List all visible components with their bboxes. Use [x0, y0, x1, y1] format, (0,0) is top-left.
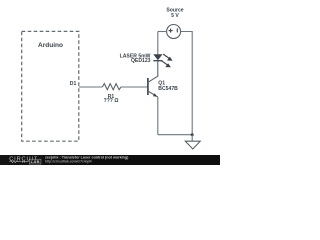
svg-text:5 V: 5 V [171, 13, 179, 19]
LED cathode bar [153, 60, 162, 62]
LED laser diode D? anode wire [157, 32, 159, 55]
wire resistor to transistor base [121, 86, 148, 88]
voltage source V1 circle [167, 25, 181, 39]
LED emission arrow 2 [162, 61, 168, 66]
svg-text:http://circuitlab.com/c/7c4qd4: http://circuitlab.com/c/7c4qd4 [45, 159, 92, 163]
emitter wire down [157, 97, 159, 135]
svg-text:QED123: QED123 [131, 58, 151, 64]
svg-text:D1: D1 [70, 81, 77, 87]
footer bar [0, 155, 220, 165]
ground symbol [185, 141, 200, 149]
resistor R1 [102, 84, 121, 90]
source minus bar [176, 28, 178, 32]
ground stub [191, 135, 193, 142]
junction node [191, 133, 194, 136]
svg-text:Arduino: Arduino [38, 42, 63, 49]
transistor Q1 base bar [147, 78, 149, 95]
svg-text:LAB: LAB [31, 159, 40, 164]
LED triangle [153, 54, 162, 60]
svg-text:BC547B: BC547B [158, 86, 178, 92]
transistor Q1 emitter lead [148, 91, 158, 97]
transistor Q1 collector lead [148, 61, 158, 82]
bottom wire [158, 134, 192, 136]
source plus sign [169, 30, 173, 32]
LED emission arrow 1 [163, 54, 169, 59]
wire D1 to resistor [79, 86, 103, 88]
transistor Q1 emitter arrow [153, 93, 157, 96]
svg-text:??? Ω: ??? Ω [104, 98, 119, 104]
wire source left to LED [158, 31, 167, 33]
wire source right down [181, 32, 192, 135]
Arduino module dashed box [22, 31, 79, 141]
